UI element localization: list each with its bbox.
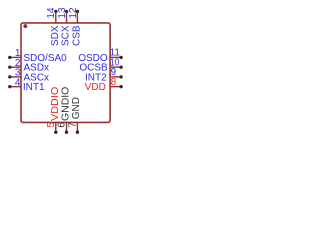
pin 9 terminal dot <box>119 75 122 78</box>
svg-text:INT1: INT1 <box>23 82 45 93</box>
pin 7 terminal dot <box>76 131 79 134</box>
pin 4 wire <box>10 86 21 88</box>
pin 1 terminal dot <box>8 56 11 59</box>
pin 11 terminal dot <box>119 56 122 59</box>
pin 1 wire <box>10 56 21 58</box>
pin 5 wire (VDDIO power) <box>55 122 57 132</box>
pin 2 terminal dot <box>8 65 11 68</box>
pin 10 wire <box>110 66 121 68</box>
pin 6 wire <box>66 122 68 132</box>
svg-text:14: 14 <box>46 7 57 19</box>
pin 4 terminal dot <box>8 85 11 88</box>
pin 2 wire <box>10 66 21 68</box>
pin 12 wire <box>76 11 78 23</box>
pin 14 terminal dot <box>54 10 57 13</box>
pin 14 wire <box>55 11 57 23</box>
svg-text:8: 8 <box>111 77 117 88</box>
svg-text:SDX: SDX <box>50 25 61 46</box>
svg-text:5: 5 <box>46 122 57 128</box>
pin 7 wire <box>76 122 78 132</box>
pin 13 wire <box>66 11 68 23</box>
IC body <box>21 23 110 123</box>
svg-text:6: 6 <box>57 122 68 128</box>
pin 9 wire <box>111 76 121 78</box>
pin 13 terminal dot <box>65 10 68 13</box>
svg-text:SCX: SCX <box>61 25 72 46</box>
svg-text:VDD: VDD <box>85 82 106 93</box>
pin 11 wire <box>110 56 121 58</box>
pin 6 terminal dot <box>65 131 68 134</box>
pin 8 wire (VDD power) <box>111 86 121 88</box>
pin 10 terminal dot <box>119 65 122 68</box>
pin 3 terminal dot <box>8 75 11 78</box>
svg-text:13: 13 <box>57 7 68 19</box>
svg-text:CSB: CSB <box>71 25 82 46</box>
svg-text:12: 12 <box>68 7 79 19</box>
pin 1 indicator dot <box>23 24 27 28</box>
svg-text:4: 4 <box>15 77 21 88</box>
svg-text:GND: GND <box>71 97 82 119</box>
svg-text:7: 7 <box>67 122 78 128</box>
svg-text:VDDIO: VDDIO <box>50 86 61 121</box>
pin 3 wire <box>10 76 21 78</box>
pin 8 terminal dot <box>119 85 122 88</box>
pin 5 terminal dot <box>54 131 57 134</box>
pin 12 terminal dot <box>76 10 79 13</box>
